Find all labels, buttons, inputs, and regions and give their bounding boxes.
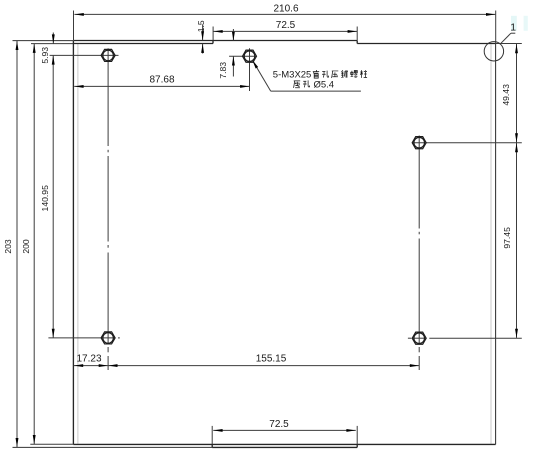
svg-text:Ø5.4: Ø5.4 [314, 79, 335, 90]
svg-text:5.93: 5.93 [40, 47, 50, 64]
svg-text:72.5: 72.5 [276, 20, 296, 31]
svg-text:155.15: 155.15 [256, 353, 287, 364]
svg-text:203: 203 [3, 239, 13, 254]
svg-text:87.68: 87.68 [149, 74, 174, 85]
svg-text:49.43: 49.43 [501, 84, 511, 106]
svg-text:72.5: 72.5 [269, 419, 289, 430]
svg-text:17.23: 17.23 [76, 354, 101, 365]
svg-text:200: 200 [21, 239, 31, 254]
svg-text:210.6: 210.6 [273, 4, 298, 15]
svg-text:97.45: 97.45 [502, 227, 512, 249]
svg-text:7.83: 7.83 [218, 62, 228, 79]
svg-text:1.5: 1.5 [196, 20, 206, 32]
svg-text:1: 1 [510, 21, 516, 33]
svg-text:5-M3X25: 5-M3X25 [273, 70, 312, 81]
svg-text:140.95: 140.95 [40, 185, 50, 212]
